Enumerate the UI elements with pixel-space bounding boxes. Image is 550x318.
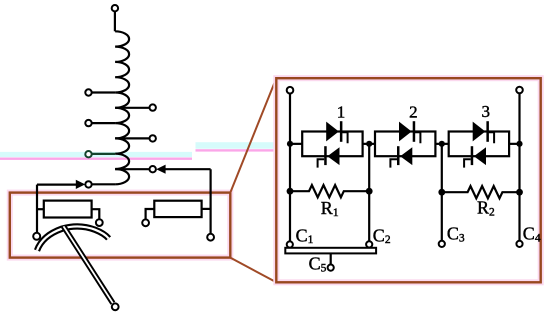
wire tap 4 right bbox=[115, 137, 149, 139]
wire mid vertical C2 bbox=[368, 144, 370, 241]
wire top lead bbox=[114, 11, 116, 31]
tap terminal 6 right bbox=[150, 166, 156, 172]
wire S2 horizontal bbox=[37, 184, 76, 186]
wire S1 vertical bbox=[210, 169, 212, 234]
wire box B right stub bbox=[202, 208, 211, 210]
callout line bottom bbox=[230, 258, 276, 283]
terminal C5 bbox=[328, 265, 334, 271]
wire tap 5 left (tinted by band) bbox=[92, 153, 115, 155]
svg-text:2: 2 bbox=[409, 103, 418, 122]
tap terminal 5 left bbox=[85, 151, 91, 157]
wire rail to box1 bbox=[290, 143, 302, 145]
junction dot rail-box1 bbox=[287, 141, 293, 147]
wire box3 to rail bbox=[509, 143, 519, 145]
wire tap 3 left bbox=[92, 122, 115, 124]
diode pair assembly 1 bbox=[302, 121, 362, 167]
wire box2 to box3 bbox=[435, 143, 448, 145]
wire box1 to box2 bbox=[363, 143, 375, 145]
tap terminal 7 bottom bbox=[85, 181, 91, 187]
tap terminal 4 right bbox=[150, 135, 156, 141]
wire box B left stub bbox=[146, 209, 155, 219]
right rail wire bbox=[518, 93, 520, 241]
wire C5 stub bbox=[330, 253, 332, 264]
terminal C3 bbox=[439, 241, 445, 247]
highlight line pink right bbox=[196, 149, 278, 151]
wire tap 2 right bbox=[115, 107, 149, 109]
busbar plate bbox=[285, 248, 376, 254]
junction dot R1 left bbox=[287, 188, 294, 195]
wire box A right stub bbox=[92, 209, 100, 219]
terminal T0 (antenna top) bbox=[112, 5, 118, 11]
zoom box small bbox=[10, 193, 231, 258]
callout line top bbox=[230, 78, 276, 192]
zoom box big (halo) bbox=[276, 78, 540, 282]
highlight band cyan left bbox=[0, 152, 192, 157]
inductor L1 bbox=[115, 31, 129, 184]
terminal S1 bottom bbox=[207, 234, 214, 241]
junction dot R2 left bbox=[438, 189, 445, 196]
junction dot R2 right bbox=[516, 189, 523, 196]
terminal box A right bbox=[96, 219, 103, 226]
terminal S2 bottom bbox=[33, 233, 40, 240]
junction dot box1-box2 bbox=[366, 141, 372, 147]
component box B bbox=[154, 201, 201, 217]
wire coil bottom to tap7 bbox=[92, 183, 115, 185]
wire S1 horizontal bbox=[165, 168, 210, 170]
terminal C2 bbox=[366, 241, 372, 247]
highlight line pink left bbox=[0, 158, 192, 160]
selector arrow S1 bbox=[156, 165, 165, 174]
diode pair assembly 3 bbox=[449, 121, 509, 167]
wire mid vertical C3 bbox=[441, 144, 443, 241]
wire S2 vertical bbox=[36, 185, 38, 233]
terminal right top bbox=[516, 87, 523, 94]
zoom box big bbox=[276, 78, 540, 282]
wiper arc bbox=[37, 226, 109, 250]
junction dot box3-rail bbox=[516, 141, 522, 147]
terminal C4 bbox=[516, 241, 522, 247]
tap terminal 3 left bbox=[85, 120, 91, 126]
tap terminal 1 left bbox=[85, 89, 91, 95]
svg-text:1: 1 bbox=[337, 103, 346, 122]
highlight band cyan right bbox=[196, 142, 278, 149]
junction dot R1 right bbox=[366, 188, 373, 195]
left rail wire bbox=[289, 93, 291, 241]
component box A bbox=[44, 201, 92, 218]
wire tap 1 left bbox=[92, 91, 115, 93]
tap terminal 2 right bbox=[150, 104, 156, 110]
resistor R2 bbox=[442, 186, 520, 198]
terminal C1 bbox=[287, 241, 293, 247]
svg-text:3: 3 bbox=[482, 102, 491, 121]
wire tap 6 right (selected) bbox=[115, 168, 149, 170]
terminal left top bbox=[287, 87, 294, 94]
selector arrow S2 bbox=[76, 180, 85, 189]
terminal box B left bbox=[142, 219, 149, 226]
diode pair assembly 2 bbox=[375, 121, 435, 167]
wiper handle rod bbox=[64, 226, 113, 303]
wiper handle end terminal bbox=[112, 303, 119, 310]
junction dot box2-box3 bbox=[439, 141, 445, 147]
wire stub S2 to box A bbox=[37, 208, 44, 210]
zoom box small (halo) bbox=[10, 193, 231, 258]
resistor R1 bbox=[290, 185, 369, 197]
